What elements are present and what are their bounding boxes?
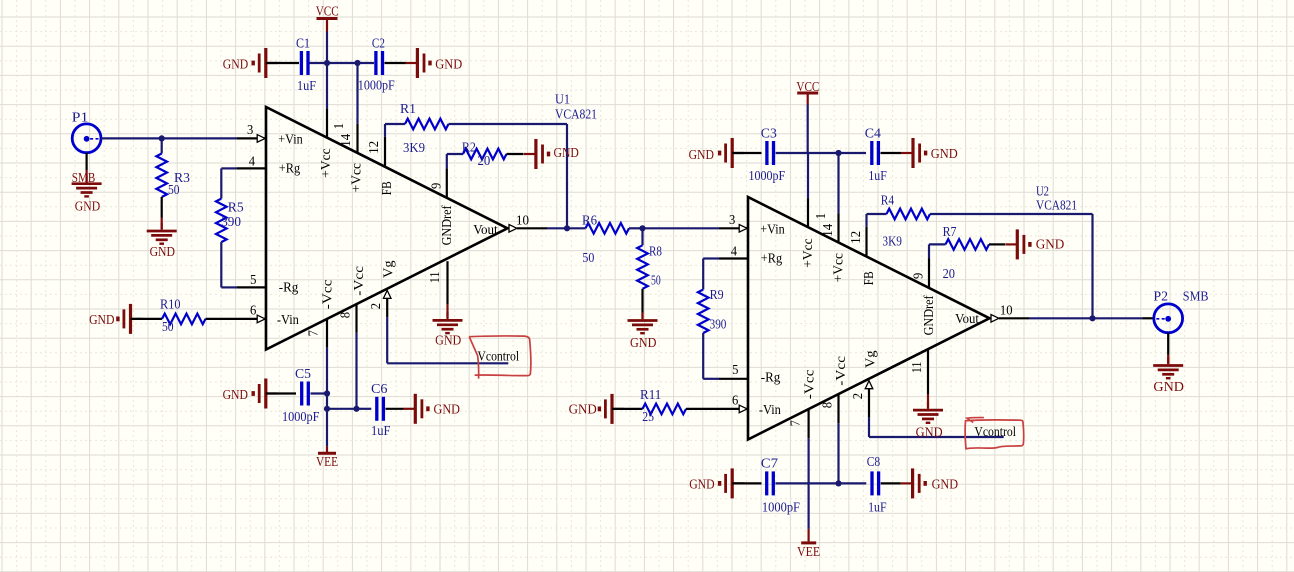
svg-text:+Vcc: +Vcc <box>319 148 334 177</box>
svg-text:GND: GND <box>434 403 461 418</box>
svg-text:1: 1 <box>332 123 347 129</box>
svg-text:2: 2 <box>851 393 866 399</box>
svg-text:Vout: Vout <box>955 312 979 327</box>
svg-text:GND: GND <box>630 336 657 351</box>
svg-text:GND: GND <box>435 57 462 72</box>
svg-text:U1: U1 <box>555 92 570 107</box>
svg-text:390: 390 <box>221 215 241 230</box>
svg-text:R2: R2 <box>462 140 476 155</box>
svg-text:C4: C4 <box>865 126 881 141</box>
svg-text:-Vcc: -Vcc <box>352 266 367 296</box>
svg-text:GND: GND <box>931 147 958 162</box>
svg-text:GND: GND <box>1036 238 1065 253</box>
svg-text:C6: C6 <box>371 382 388 397</box>
svg-text:3K9: 3K9 <box>403 141 425 156</box>
svg-text:C7: C7 <box>761 457 778 472</box>
svg-text:VCA821: VCA821 <box>1036 198 1077 213</box>
svg-text:+Rg: +Rg <box>279 162 300 177</box>
svg-text:Vcontrol: Vcontrol <box>974 425 1016 440</box>
svg-text:+Vin: +Vin <box>278 133 302 148</box>
svg-text:1000pF: 1000pF <box>358 79 395 94</box>
svg-text:9: 9 <box>912 273 927 279</box>
svg-text:VCC: VCC <box>796 80 819 95</box>
svg-text:Vg: Vg <box>863 351 878 369</box>
svg-text:C8: C8 <box>867 455 881 470</box>
svg-text:1000pF: 1000pF <box>749 169 786 184</box>
svg-text:3: 3 <box>247 123 253 138</box>
svg-text:GND: GND <box>75 200 100 215</box>
svg-text:GND: GND <box>1153 380 1184 395</box>
svg-text:GND: GND <box>932 477 959 492</box>
svg-text:50: 50 <box>582 251 594 266</box>
svg-text:1uF: 1uF <box>297 79 316 94</box>
svg-text:1000pF: 1000pF <box>762 501 800 516</box>
svg-text:R9: R9 <box>710 288 724 303</box>
svg-text:VEE: VEE <box>797 545 820 560</box>
svg-text:R8: R8 <box>649 245 662 260</box>
svg-text:GND: GND <box>150 245 175 260</box>
svg-text:GND: GND <box>554 146 579 161</box>
svg-text:14: 14 <box>821 224 836 237</box>
svg-text:2: 2 <box>369 303 384 309</box>
svg-text:-Rg: -Rg <box>279 281 299 296</box>
svg-text:Vout: Vout <box>473 223 498 238</box>
svg-text:C5: C5 <box>295 367 311 382</box>
svg-text:1000pF: 1000pF <box>282 410 320 425</box>
svg-text:20: 20 <box>943 267 955 282</box>
svg-text:-Vcc: -Vcc <box>802 370 817 400</box>
svg-text:FB: FB <box>380 181 395 195</box>
svg-text:GND: GND <box>223 388 248 403</box>
svg-text:8: 8 <box>339 312 354 318</box>
svg-text:1uF: 1uF <box>868 169 887 184</box>
svg-text:P1: P1 <box>72 110 89 125</box>
svg-text:-Vcc: -Vcc <box>320 280 335 310</box>
svg-text:11: 11 <box>910 362 925 374</box>
svg-text:3K9: 3K9 <box>882 235 902 250</box>
svg-text:Vcontrol: Vcontrol <box>477 350 519 365</box>
svg-text:4: 4 <box>731 245 737 260</box>
svg-text:GND: GND <box>569 403 597 418</box>
svg-text:GNDref: GNDref <box>922 295 937 335</box>
svg-text:10: 10 <box>516 213 529 228</box>
svg-text:GNDref: GNDref <box>440 205 455 245</box>
svg-text:R11: R11 <box>640 388 661 403</box>
svg-text:1uF: 1uF <box>371 424 391 439</box>
svg-text:12: 12 <box>367 141 382 154</box>
svg-text:12: 12 <box>849 231 864 244</box>
svg-text:50: 50 <box>651 274 661 289</box>
svg-text:R4: R4 <box>881 194 894 209</box>
svg-text:R10: R10 <box>160 297 181 312</box>
svg-text:FB: FB <box>862 271 877 285</box>
svg-text:C3: C3 <box>761 126 777 141</box>
svg-text:+Vcc: +Vcc <box>801 238 816 267</box>
svg-text:5: 5 <box>250 273 256 288</box>
svg-text:VCC: VCC <box>316 4 339 19</box>
svg-text:P2: P2 <box>1153 290 1168 305</box>
svg-text:R1: R1 <box>400 102 416 117</box>
svg-text:8: 8 <box>821 402 836 408</box>
svg-text:GND: GND <box>689 477 714 492</box>
svg-text:R5: R5 <box>228 200 244 215</box>
svg-text:GND: GND <box>435 334 461 349</box>
svg-text:20: 20 <box>478 154 491 169</box>
svg-text:11: 11 <box>428 272 443 284</box>
svg-text:+Vcc: +Vcc <box>832 253 847 282</box>
svg-text:7: 7 <box>307 330 322 336</box>
svg-text:6: 6 <box>250 303 256 318</box>
svg-text:SMB: SMB <box>72 171 96 186</box>
svg-text:VEE: VEE <box>316 455 338 470</box>
svg-text:10: 10 <box>1000 303 1013 318</box>
svg-text:-Vcc: -Vcc <box>834 356 849 386</box>
svg-text:R6: R6 <box>582 213 597 228</box>
svg-text:4: 4 <box>249 155 255 170</box>
svg-text:GND: GND <box>223 57 248 72</box>
svg-text:-Vin: -Vin <box>759 403 781 418</box>
svg-text:390: 390 <box>710 317 727 332</box>
svg-text:+Rg: +Rg <box>761 252 782 267</box>
svg-text:GND: GND <box>916 425 943 440</box>
svg-text:+Vcc: +Vcc <box>350 163 365 192</box>
svg-text:7: 7 <box>789 420 804 426</box>
svg-text:1uF: 1uF <box>868 501 887 516</box>
svg-text:9: 9 <box>430 183 445 189</box>
svg-text:C2: C2 <box>372 36 385 51</box>
svg-text:GND: GND <box>89 313 114 328</box>
svg-text:SMB: SMB <box>1183 290 1209 305</box>
svg-text:U2: U2 <box>1036 184 1049 199</box>
svg-text:VCA821: VCA821 <box>555 107 597 122</box>
svg-text:R7: R7 <box>943 225 957 240</box>
svg-text:3: 3 <box>729 213 735 228</box>
svg-text:50: 50 <box>162 320 174 335</box>
svg-text:+Vin: +Vin <box>760 223 784 238</box>
svg-text:25: 25 <box>642 410 654 425</box>
svg-text:C1: C1 <box>296 36 310 51</box>
svg-text:1: 1 <box>814 213 829 219</box>
svg-text:5: 5 <box>732 363 738 378</box>
svg-text:GND: GND <box>689 148 714 163</box>
svg-text:6: 6 <box>732 393 738 408</box>
svg-text:Vg: Vg <box>381 261 396 279</box>
svg-text:14: 14 <box>339 134 354 147</box>
svg-text:50: 50 <box>168 183 180 198</box>
svg-text:-Vin: -Vin <box>277 313 299 328</box>
svg-text:-Rg: -Rg <box>761 371 781 386</box>
